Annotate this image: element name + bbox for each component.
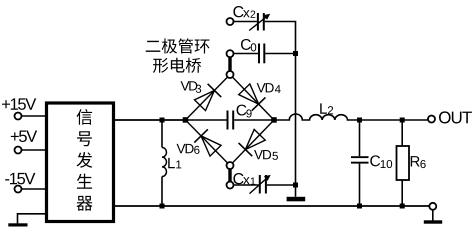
label VD6 xyxy=(177,144,200,154)
ground (signal generator) xyxy=(8,214,45,227)
variable capacitor Cx2 xyxy=(227,6,271,30)
label VD3 xyxy=(181,81,202,93)
node: bridge left junction xyxy=(183,117,189,123)
-15V supply terminal xyxy=(5,173,45,193)
OUT terminal xyxy=(428,111,472,123)
ground (center) xyxy=(287,197,306,202)
node: bridge top xyxy=(227,71,234,78)
bottom rail wire xyxy=(115,205,429,207)
capacitor C10 xyxy=(351,120,392,206)
junction R6 bottom xyxy=(400,204,405,209)
wire Cx2 to ground line xyxy=(265,22,296,197)
label: 二极管环形电桥 xyxy=(146,38,210,73)
junction C0/ground line xyxy=(293,51,298,56)
wire: bridge right node, hop over ground line, inductor L2, to OUT xyxy=(274,114,428,120)
junction C10 top xyxy=(357,118,362,123)
ground (output) xyxy=(424,210,442,224)
diode VD6 xyxy=(194,129,221,156)
variable capacitor Cx1 xyxy=(227,173,296,194)
junction C10 bottom xyxy=(357,204,362,209)
node: bridge right junction xyxy=(271,117,277,123)
capacitor C0 xyxy=(227,39,296,63)
diode bridge wires xyxy=(186,75,275,166)
+15V supply terminal xyxy=(2,98,45,119)
label VD5 xyxy=(254,150,278,160)
label VD4 xyxy=(257,83,281,93)
+5V supply terminal xyxy=(11,131,45,154)
link bridge bottom node to Cx1 xyxy=(228,169,231,182)
bottom right terminal xyxy=(429,203,436,210)
inductor L1 xyxy=(162,120,181,206)
node: bridge bottom xyxy=(227,162,234,169)
junction R6 top xyxy=(400,118,405,123)
signal generator box 信号发生器 xyxy=(47,103,114,222)
diode VD4 xyxy=(239,84,266,111)
label L2 xyxy=(320,103,333,114)
junction: L1 bottom xyxy=(160,204,165,209)
link C0 to bridge top node xyxy=(228,57,231,72)
diode VD5 xyxy=(239,129,266,156)
wire: box output to bridge left node xyxy=(115,119,186,121)
junction: L1 top xyxy=(160,118,165,123)
resistor R6 xyxy=(397,120,426,206)
capacitor C9 xyxy=(186,105,275,130)
junction Cx1/ground line xyxy=(293,183,298,188)
diode VD3 xyxy=(194,84,221,111)
